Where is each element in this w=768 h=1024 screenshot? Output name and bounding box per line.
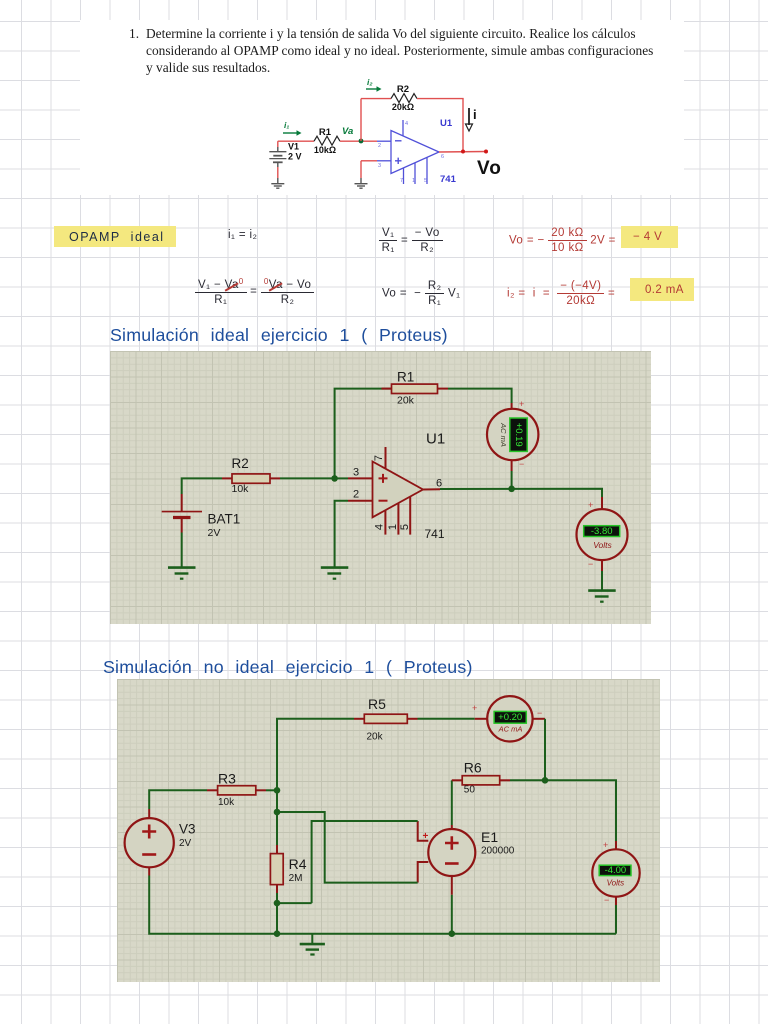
resistor R1 body	[392, 384, 438, 393]
ground (battery)	[168, 568, 196, 579]
R5 left pin stub	[354, 718, 364, 720]
E1 rail junction dot	[449, 930, 456, 937]
wire: battery to ground (green)	[181, 533, 183, 568]
voltmeter bottom stub (red)	[615, 897, 617, 905]
resistor R6 body	[462, 776, 500, 785]
pin 7 lead (red)	[385, 447, 387, 469]
svg-text:10k: 10k	[218, 797, 235, 808]
output junction dot	[508, 486, 515, 493]
E1 upper control bracket (red)	[418, 821, 429, 841]
wire: R3 to node (green)	[266, 789, 277, 791]
svg-text:R1: R1	[397, 370, 414, 385]
wire: output to voltmeter (green)	[440, 489, 602, 497]
voltmeter circle	[592, 849, 639, 896]
output junction dot	[461, 150, 465, 154]
wire: R2 to node (green)	[280, 477, 335, 479]
wire: R1 to node (red)	[340, 140, 377, 142]
R3 left pin stub	[207, 789, 218, 791]
svg-text:+: +	[423, 831, 429, 842]
battery BAT1 top stub (red)	[181, 494, 183, 512]
E1 plus sign	[445, 836, 459, 850]
R3 right pin stub	[256, 789, 266, 791]
ammeter display	[510, 418, 527, 451]
wire: riser to ground 2 (red)	[360, 161, 362, 178]
ground (voltmeter)	[588, 591, 616, 602]
highlight OPAMP ideal	[54, 226, 176, 247]
svg-text:−: −	[604, 895, 609, 905]
wire: battery top to R2 (green)	[182, 478, 222, 494]
wire: bottom rail (green)	[149, 876, 616, 934]
Proteus screenshot 1	[110, 351, 651, 624]
handwritten work row 2	[195, 277, 314, 306]
ammeter display	[494, 711, 526, 723]
svg-text:1: 1	[412, 178, 415, 184]
ground (battery)	[271, 184, 284, 189]
svg-text:741: 741	[440, 174, 457, 185]
R4 top pin stub	[276, 845, 278, 854]
wire: feedback top right segment (red)	[417, 99, 463, 152]
pin 4 lead (red)	[384, 510, 386, 534]
pin 4 bottom lead	[403, 168, 405, 184]
R5 right pin stub	[407, 718, 417, 720]
svg-text:i₁: i₁	[284, 120, 289, 130]
svg-text:6: 6	[436, 478, 442, 490]
svg-text:i₂: i₂	[367, 78, 373, 87]
wire: voltmeter to rail (green)	[615, 905, 617, 934]
problem statement text	[129, 25, 669, 77]
R2 right pin stub	[270, 477, 280, 479]
svg-text:-4.00: -4.00	[605, 865, 627, 876]
pin 2 lead	[377, 140, 391, 142]
svg-text:20k: 20k	[367, 732, 384, 743]
svg-text:R3: R3	[218, 771, 236, 787]
battery V1 top stub	[277, 141, 279, 147]
wire: E1 top corner to R6 (green)	[451, 780, 453, 825]
wire: ammeter to output junction (green)	[511, 471, 513, 489]
ammeter left stub (red)	[475, 718, 488, 720]
svg-text:4: 4	[405, 121, 408, 127]
svg-text:V3: V3	[179, 822, 196, 837]
wire: j3 to control vertical (green)	[277, 902, 312, 904]
ground (op-amp input)	[321, 568, 349, 579]
voltmeter display	[599, 865, 631, 875]
source V3 circle	[125, 818, 174, 867]
svg-text:20kΩ: 20kΩ	[392, 102, 414, 112]
voltmeter bottom stub (red)	[601, 560, 603, 571]
svg-text:U1: U1	[440, 118, 453, 129]
op-amp minus sign	[379, 500, 388, 502]
ammeter top stub (red)	[511, 403, 513, 409]
source E1 circle	[428, 829, 475, 876]
svg-text:+: +	[603, 840, 608, 850]
wire: R5 to ammeter (green)	[418, 718, 475, 720]
pin 7 top lead	[402, 120, 404, 136]
pin 1 lead (red)	[397, 503, 399, 535]
node junction dot j1	[274, 787, 281, 794]
op-amp U1 triangle	[373, 462, 424, 518]
svg-text:AC mA: AC mA	[499, 422, 508, 447]
wire: pin 2 down to ground (green)	[335, 501, 348, 568]
R1 right pin stub	[438, 388, 449, 390]
wire: ground to pin 3 (red)	[361, 160, 377, 162]
blue handwritten title 1	[110, 325, 448, 346]
svg-text:2: 2	[378, 143, 381, 149]
svg-text:R4: R4	[289, 856, 307, 872]
ammeter bottom stub (red)	[511, 460, 513, 471]
source E1 top stub (red)	[451, 825, 453, 830]
svg-text:50: 50	[464, 785, 476, 796]
wire: feedback left riser (red)	[360, 99, 362, 141]
wire: node to pin 3 (green)	[335, 477, 348, 479]
svg-text:+: +	[472, 703, 477, 713]
svg-text:R2: R2	[397, 84, 409, 95]
node junction dot (inverting input node)	[331, 475, 338, 482]
wire: ammeter down to junction j4 (green)	[544, 719, 546, 781]
pin 6 stub (red)	[423, 488, 440, 490]
svg-text:20k: 20k	[397, 395, 415, 407]
svg-text:R2: R2	[232, 456, 249, 471]
V3 top stub (red)	[148, 809, 150, 818]
wire: node riser to R1 (green)	[335, 389, 392, 479]
ammeter circle	[487, 696, 532, 741]
battery BAT1 plates	[162, 512, 202, 518]
svg-text:i: i	[473, 107, 477, 122]
wire: upper control to ground line (green)	[312, 821, 418, 903]
svg-text:2M: 2M	[289, 873, 303, 884]
svg-text:−: −	[519, 459, 524, 469]
svg-text:2: 2	[353, 489, 359, 501]
Proteus screenshot 2	[117, 679, 660, 982]
resistor R4 body	[270, 854, 283, 885]
wire: lower control to node j2 (green)	[277, 812, 418, 883]
svg-text:AC mA: AC mA	[498, 725, 523, 734]
svg-text:U1: U1	[426, 431, 445, 448]
ground stub (green)	[311, 934, 313, 944]
svg-text:10k: 10k	[232, 483, 250, 495]
svg-text:2 V: 2 V	[288, 152, 302, 162]
V3 minus sign	[142, 853, 156, 856]
E1 lower control bracket (red)	[418, 862, 429, 883]
svg-text:4: 4	[374, 524, 386, 530]
op-amp plus sign	[379, 474, 388, 483]
svg-text:200000: 200000	[481, 846, 515, 857]
wire: junction j4 to voltmeter corner (green)	[545, 780, 616, 841]
svg-text:+0.19: +0.19	[513, 423, 524, 447]
blue handwritten title 2	[103, 657, 473, 678]
svg-text:7: 7	[373, 455, 385, 461]
pin 3 lead	[377, 160, 391, 162]
svg-text:R5: R5	[368, 696, 386, 712]
svg-text:−: −	[537, 708, 542, 718]
svg-text:E1: E1	[481, 829, 498, 845]
resistor R3 body	[218, 786, 256, 795]
wire: R6 to junction j4 (green)	[510, 779, 545, 781]
battery V1 plates	[269, 152, 286, 163]
resistor R5 body	[364, 714, 407, 723]
current arrow i1	[283, 130, 302, 135]
svg-text:3: 3	[353, 467, 359, 479]
op-amp minus sign	[395, 140, 402, 142]
svg-text:V1: V1	[288, 142, 299, 152]
wire: voltmeter to ground (green)	[601, 571, 603, 591]
svg-text:BAT1: BAT1	[208, 512, 241, 527]
E1 bottom stub (red)	[451, 876, 453, 895]
svg-text:3: 3	[378, 163, 381, 169]
wire: feedback top left segment (red)	[361, 98, 391, 100]
wire: R1 to ammeter corner (green)	[448, 389, 512, 403]
wire: E1 bottom to rail (green)	[451, 895, 453, 934]
svg-text:Va: Va	[342, 126, 353, 137]
svg-text:Volts: Volts	[593, 540, 612, 550]
R6 right pin stub	[500, 779, 510, 781]
voltmeter circle	[577, 509, 628, 560]
voltmeter top stub (red)	[601, 497, 603, 509]
svg-text:6: 6	[441, 154, 444, 160]
svg-text:R6: R6	[464, 760, 482, 776]
wire: node vertical through R4 (green)	[276, 790, 278, 845]
wire: output (red)	[439, 151, 486, 154]
svg-text:-3.80: -3.80	[591, 526, 613, 537]
svg-text:2V: 2V	[208, 527, 221, 539]
printed circuit figure	[228, 78, 508, 205]
resistor R1 zigzag	[314, 136, 340, 145]
current arrow i2	[366, 86, 382, 91]
resistor R2 body	[232, 474, 270, 483]
rail junction dot below R4	[274, 930, 281, 937]
wire: node riser to R5 (green)	[277, 719, 354, 791]
V3 plus sign	[142, 825, 156, 839]
R6 left pin stub	[452, 779, 462, 781]
ammeter right stub (red)	[533, 718, 545, 720]
R4 bottom pin stub	[276, 885, 278, 893]
pin 3 stub (red)	[348, 477, 373, 479]
wire: R4 bottom to rail (green)	[276, 893, 278, 934]
wire: V3 top to R3 (green)	[149, 790, 207, 809]
svg-text:+0.20: +0.20	[498, 712, 522, 723]
svg-text:Volts: Volts	[607, 878, 625, 887]
voltmeter display	[584, 526, 620, 537]
svg-text:+: +	[588, 500, 593, 510]
pin 2 stub (red)	[348, 500, 373, 502]
svg-text:5: 5	[424, 178, 427, 184]
voltmeter top stub (red)	[615, 841, 617, 849]
pin 5 lead (red)	[409, 497, 411, 535]
battery BAT1 bottom stub (red)	[181, 518, 183, 533]
op-amp U1 triangle	[391, 131, 439, 174]
pin 1 bottom lead	[414, 163, 416, 184]
op-amp plus sign	[395, 158, 402, 164]
node junction dot	[359, 139, 364, 144]
svg-text:2V: 2V	[179, 838, 192, 849]
battery bottom wire	[277, 162, 279, 167]
ammeter U? circle	[487, 409, 538, 460]
white problem statement box	[80, 20, 684, 195]
svg-text:1: 1	[387, 524, 399, 530]
junction dot j2	[274, 809, 281, 816]
svg-text:5: 5	[399, 524, 411, 530]
wire: V1 top to R1 (red)	[278, 140, 314, 142]
pin 5 bottom lead	[426, 158, 428, 185]
svg-text:741: 741	[425, 527, 445, 541]
V3 bottom stub (red)	[148, 867, 150, 875]
junction dot j3	[274, 900, 281, 907]
R1 left pin stub	[382, 388, 392, 390]
svg-text:10kΩ: 10kΩ	[314, 145, 336, 155]
svg-text:+: +	[519, 399, 524, 409]
E1 minus sign	[445, 862, 459, 865]
svg-text:−: −	[588, 559, 593, 569]
svg-text:Vo: Vo	[477, 158, 502, 179]
R2 left pin stub	[222, 477, 232, 479]
svg-text:R1: R1	[319, 127, 332, 138]
ground (op-amp)	[355, 184, 368, 189]
ground symbol	[300, 944, 325, 954]
svg-text:7: 7	[400, 178, 403, 184]
output end dot	[484, 150, 488, 154]
junction dot j4	[542, 777, 549, 784]
current arrow i	[466, 108, 473, 131]
resistor R2 zigzag	[391, 94, 417, 103]
